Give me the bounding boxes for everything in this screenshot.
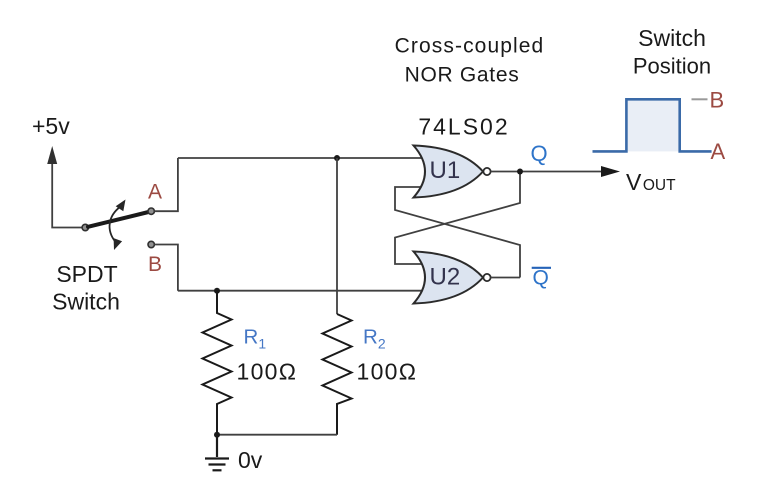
junction B rail / R1 xyxy=(214,288,220,294)
svg-text:NOR Gates: NOR Gates xyxy=(405,64,520,87)
switch SPDT motion arrow xyxy=(110,200,126,251)
waveform fill xyxy=(626,99,679,151)
wire feedback U2 output to U1 input 2 xyxy=(395,187,520,278)
wire node B to B rail xyxy=(154,245,178,291)
switch SPDT pole contact xyxy=(82,224,88,230)
svg-text:Switch: Switch xyxy=(638,25,706,51)
svg-text:100Ω: 100Ω xyxy=(237,359,298,385)
svg-text:B: B xyxy=(148,253,162,276)
wire U2 output xyxy=(491,277,520,279)
svg-text:0v: 0v xyxy=(238,447,263,473)
wire B rail to U2 input 2 xyxy=(178,290,423,292)
svg-text:Q: Q xyxy=(533,267,549,290)
svg-text:+5v: +5v xyxy=(32,113,70,139)
wire top rail to U1 input 1 xyxy=(178,157,423,159)
wire bottom rail xyxy=(217,434,337,436)
svg-text:B: B xyxy=(710,88,725,113)
switch contact A xyxy=(148,208,154,214)
svg-text:Cross-coupled: Cross-coupled xyxy=(395,35,545,58)
wire node A to top rail xyxy=(154,158,178,211)
power +5v arrow and wire to switch pole xyxy=(52,163,82,228)
svg-text:100Ω: 100Ω xyxy=(357,359,418,385)
junction top rail / R2 xyxy=(334,155,340,161)
NOR gate U2 (74LS02) xyxy=(414,252,491,304)
svg-text:Switch: Switch xyxy=(52,289,120,315)
resistor R2 xyxy=(323,314,352,435)
svg-text:SPDT: SPDT xyxy=(56,261,117,287)
arrowhead Vout xyxy=(601,166,620,177)
svg-text:U1: U1 xyxy=(430,157,461,184)
waveform trace xyxy=(593,99,712,151)
svg-text:74LS02: 74LS02 xyxy=(418,114,509,140)
switch contact B xyxy=(148,241,154,247)
ground xyxy=(205,435,229,471)
svg-text:U2: U2 xyxy=(430,264,461,291)
svg-text:Q: Q xyxy=(531,141,548,166)
wire top rail down to R2 xyxy=(336,158,338,314)
wire U1 output to Vout xyxy=(491,171,602,173)
svg-text:Position: Position xyxy=(633,54,711,79)
svg-text:A: A xyxy=(711,139,726,164)
junction node Q xyxy=(517,169,523,175)
junction bottom rail / ground xyxy=(214,432,220,438)
svg-text:A: A xyxy=(148,181,162,204)
wire feedback U1 output to U2 input 1 xyxy=(395,172,520,265)
level B tick xyxy=(692,98,708,100)
NOR gate U1 (74LS02) xyxy=(414,146,491,198)
resistor R1 xyxy=(203,291,232,435)
switch SPDT lever xyxy=(88,212,149,227)
